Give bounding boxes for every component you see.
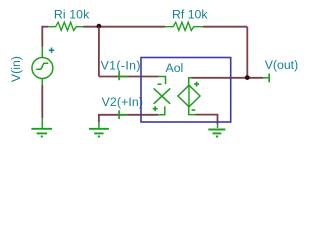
ground left — [31, 129, 52, 137]
junction dot A — [97, 24, 102, 29]
summer X symbol — [154, 88, 171, 103]
pin tick V(out) — [268, 74, 270, 83]
output lead from source top — [189, 78, 192, 85]
source V(in) — [32, 58, 53, 79]
pin lead plus input of summer — [158, 106, 165, 114]
resistor Ri — [48, 22, 83, 30]
svg-text:V2(+In): V2(+In) — [102, 95, 144, 109]
green lead segment at V2 tick — [119, 114, 128, 116]
source bottom lead — [189, 107, 196, 115]
wire V2 vertical to ground — [98, 114, 100, 122]
pin lead minus input of summer — [159, 77, 166, 85]
wire V1 horizontal — [99, 76, 159, 78]
svg-text:V1(-In): V1(-In) — [101, 58, 141, 72]
output pin lead green — [263, 77, 269, 79]
svg-text:Rf 10k: Rf 10k — [172, 7, 208, 21]
dependent source internal lead — [188, 85, 190, 107]
wire right vertical from top to output — [246, 27, 248, 78]
wire left vertical from top to source — [41, 26, 43, 47]
plus mark of V(in) — [49, 48, 54, 53]
resistor Rf — [165, 22, 203, 30]
wire top horizontal middle segment — [83, 26, 165, 28]
minus label at summer — [158, 83, 162, 85]
wire output horizontal — [192, 77, 264, 79]
op-amp model box U1 — [141, 58, 231, 123]
svg-text:Aol: Aol — [166, 61, 184, 75]
junction dot B — [245, 75, 250, 80]
wire V2 horizontal — [99, 114, 158, 116]
wire vertical junction to V1 row — [98, 27, 100, 77]
wire source bottom to ground — [196, 115, 218, 124]
ground right — [208, 130, 225, 137]
wire top horizontal left segment — [42, 26, 48, 28]
pin tick V2 — [118, 110, 120, 119]
minus label at source bottom — [192, 109, 196, 111]
svg-text:V(out): V(out) — [265, 58, 299, 72]
plus label at source top — [194, 82, 199, 87]
ground middle — [89, 129, 109, 137]
dependent source E1 diamond — [178, 85, 200, 107]
green lead segment at V1 tick — [119, 76, 128, 78]
wire top horizontal right segment — [203, 26, 247, 28]
pin tick V1 — [118, 71, 120, 80]
plus label at summer — [153, 106, 158, 111]
svg-text:V(in): V(in) — [9, 56, 23, 82]
svg-text:Ri 10k: Ri 10k — [54, 8, 90, 22]
wire from source to ground — [41, 79, 43, 85]
